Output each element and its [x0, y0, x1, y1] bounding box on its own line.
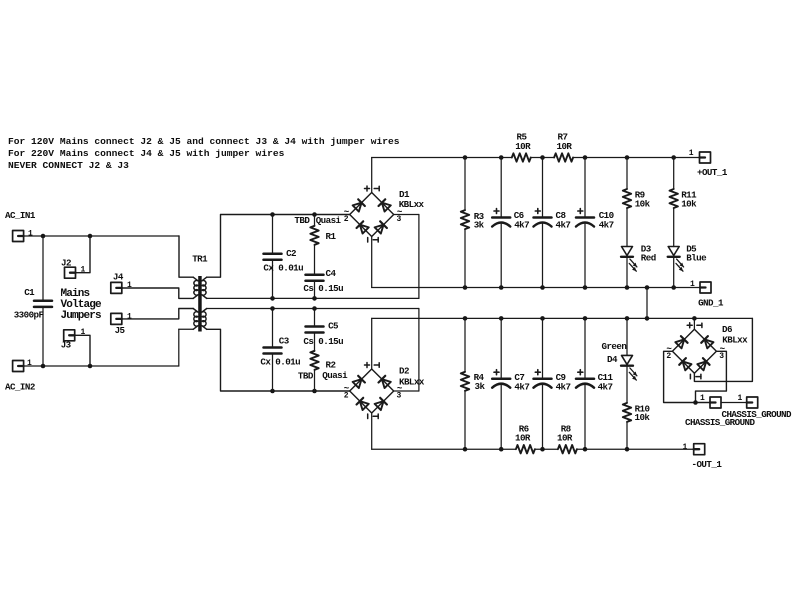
- junction dots AC_IN2 net: [41, 364, 93, 369]
- wire C8 leads: [542, 158, 544, 288]
- svg-text:4k7: 4k7: [598, 382, 613, 393]
- wire C2 leads: [272, 215, 274, 299]
- wire secondary B bottom to D2 AC1 node: [207, 329, 350, 391]
- transformer TR1 core: [198, 276, 202, 332]
- wire J4 to TR1 primary A bottom: [122, 288, 193, 298]
- wire GND2 rail: [372, 317, 753, 319]
- wire R9 D3 branch: [626, 158, 628, 288]
- wire R3 leads: [464, 158, 466, 288]
- wire C5 R2 chain: [314, 309, 316, 392]
- svg-text:C1: C1: [24, 287, 35, 298]
- wire D6 minus loop to GND2 rail: [694, 318, 752, 381]
- junction dots GND2 rail: [463, 316, 697, 321]
- junction dots -OUT rail: [463, 447, 630, 452]
- wire GND to GND2 link: [646, 288, 648, 319]
- svg-text:10R: 10R: [557, 141, 573, 152]
- wire C10 leads: [584, 158, 586, 288]
- svg-text:C5: C5: [328, 320, 339, 331]
- capacitor C9: [534, 370, 552, 388]
- svg-text:GND_1: GND_1: [698, 298, 724, 309]
- svg-text:TR1: TR1: [192, 254, 208, 265]
- wire D2 plus up to GND2 rail: [371, 318, 373, 369]
- svg-text:KBLxx: KBLxx: [722, 334, 748, 345]
- LED D5: [668, 247, 684, 272]
- wire R4 leads: [464, 318, 466, 449]
- junction dots GND rail: [463, 285, 676, 290]
- wire AC_IN1 down to TR1 primary A top: [179, 236, 193, 277]
- junction dot chassis node: [693, 400, 698, 405]
- wire D1 minus down to GND rail: [371, 237, 373, 288]
- svg-text:NEVER CONNECT J2 & J3: NEVER CONNECT J2 & J3: [8, 160, 129, 171]
- wire D4 R10 branch: [626, 318, 628, 449]
- connector GND_1: [700, 282, 711, 293]
- transformer TR1 winding primary A: [193, 277, 198, 298]
- svg-text:4k7: 4k7: [514, 382, 529, 393]
- svg-text:Cx 0.01u: Cx 0.01u: [260, 357, 300, 368]
- wire C7 leads: [500, 318, 502, 449]
- svg-text:J4: J4: [113, 271, 124, 282]
- junction dots node D2 AC2: [270, 306, 317, 311]
- wire R1 C4 chain: [314, 215, 316, 299]
- svg-text:3k: 3k: [475, 381, 486, 392]
- svg-text:J3: J3: [61, 340, 72, 351]
- capacitor C10: [576, 209, 594, 227]
- wire C11 leads: [584, 318, 586, 449]
- svg-text:10k: 10k: [681, 198, 697, 209]
- svg-text:1: 1: [738, 394, 743, 403]
- capacitor C1: [34, 301, 52, 307]
- LED D3: [621, 247, 637, 272]
- svg-text:Red: Red: [641, 253, 656, 264]
- svg-text:1: 1: [689, 149, 694, 158]
- bridge rectifier D1: [344, 186, 403, 242]
- svg-text:For 220V Mains connect J4 & J5: For 220V Mains connect J4 & J5 with jump…: [8, 148, 285, 159]
- resistor R6: [516, 445, 535, 453]
- svg-text:Blue: Blue: [686, 253, 707, 264]
- connector -OUT_1: [694, 444, 705, 455]
- svg-text:3: 3: [719, 352, 724, 361]
- wire D6 AC1 to chassis node: [664, 351, 710, 402]
- svg-text:For 120V Mains connect J2 & J5: For 120V Mains connect J2 & J5 and conne…: [8, 136, 400, 147]
- wire D1 plus up to +rail: [371, 158, 373, 193]
- resistor R8: [558, 445, 577, 453]
- junction dots AC_IN1 net: [41, 234, 93, 239]
- junction dots node D2 AC1: [270, 389, 317, 394]
- svg-text:2: 2: [344, 215, 349, 224]
- svg-text:Cx 0.01u: Cx 0.01u: [263, 263, 303, 274]
- connector +OUT_1: [700, 152, 711, 163]
- wire D6 plus to GND2 rail: [693, 318, 695, 329]
- resistor R5: [512, 153, 531, 161]
- svg-text:J2: J2: [61, 257, 71, 268]
- wire secondary B top to D2 AC2 node: [207, 309, 419, 392]
- capacitor C4: [306, 275, 324, 281]
- capacitor C7: [492, 370, 510, 388]
- svg-text:1: 1: [700, 394, 705, 403]
- capacitor C5: [306, 327, 324, 333]
- junction dots node D1 AC2: [270, 296, 317, 301]
- resistor R1: [310, 226, 318, 245]
- wire +OUT rail: [372, 157, 700, 159]
- wire TR1 primary B bottom lead: [179, 328, 193, 330]
- svg-text:TBD: TBD: [294, 215, 310, 226]
- svg-text:C3: C3: [279, 336, 290, 347]
- svg-text:Jumpers: Jumpers: [61, 310, 102, 322]
- svg-text:KBLxx: KBLxx: [399, 199, 425, 210]
- junction dots +OUT rail: [463, 155, 676, 160]
- resistor R10: [623, 403, 631, 422]
- resistor R9: [623, 189, 631, 208]
- connector J2: [65, 267, 76, 278]
- svg-text:4k7: 4k7: [556, 382, 571, 393]
- wire -OUT rail: [372, 448, 694, 450]
- junction dots node D1 AC1: [270, 212, 317, 217]
- svg-text:CHASSIS_GROUND: CHASSIS_GROUND: [685, 417, 756, 428]
- svg-text:-OUT_1: -OUT_1: [692, 459, 723, 470]
- wire secondary A bottom to D1 AC2 node: [207, 215, 419, 299]
- svg-text:4k7: 4k7: [514, 220, 529, 231]
- resistor R11: [670, 189, 678, 208]
- wire J2 to AC_IN1 net: [76, 236, 91, 273]
- wire between chassis connectors: [721, 402, 747, 404]
- svg-text:KBLxx: KBLxx: [399, 377, 425, 388]
- svg-text:3: 3: [397, 215, 402, 224]
- svg-text:4k7: 4k7: [556, 220, 571, 231]
- svg-text:1: 1: [683, 443, 688, 452]
- svg-text:Quasi: Quasi: [316, 215, 342, 226]
- svg-text:10R: 10R: [515, 141, 531, 152]
- svg-text:3: 3: [397, 392, 402, 401]
- resistor R3: [461, 210, 469, 229]
- svg-text:2: 2: [666, 352, 671, 361]
- svg-text:10k: 10k: [635, 198, 651, 209]
- svg-text:R2: R2: [326, 359, 336, 370]
- svg-text:1: 1: [28, 229, 33, 238]
- label Mains Voltage Jumpers: [61, 288, 103, 322]
- svg-text:D2: D2: [399, 366, 409, 377]
- wire GND rail: [372, 287, 700, 289]
- capacitor C6: [492, 209, 510, 227]
- svg-text:TBD: TBD: [298, 370, 314, 381]
- wire J5 to TR1 primary B top: [122, 309, 193, 319]
- wire D6 AC2 to chassis node: [696, 351, 727, 402]
- transformer TR1 winding secondary A: [202, 277, 207, 298]
- svg-text:1: 1: [27, 359, 32, 368]
- resistor R7: [554, 153, 573, 161]
- svg-text:J5: J5: [115, 325, 126, 336]
- connector J5: [111, 313, 122, 324]
- svg-text:AC_IN1: AC_IN1: [5, 210, 36, 221]
- svg-text:3300pF: 3300pF: [14, 309, 44, 320]
- connector CHASSIS_GROUND 1: [710, 397, 721, 408]
- svg-text:C2: C2: [286, 248, 296, 259]
- wire C3 leads: [272, 309, 274, 392]
- wire R11 D5 branch: [673, 158, 675, 288]
- svg-text:Cs 0.15u: Cs 0.15u: [303, 336, 343, 347]
- transformer TR1 winding secondary B: [202, 309, 207, 330]
- capacitor C8: [534, 209, 552, 227]
- svg-text:4k7: 4k7: [599, 220, 614, 231]
- connector J4: [111, 282, 122, 293]
- svg-text:C4: C4: [326, 268, 337, 279]
- wire D2 minus down to -rail: [371, 413, 373, 449]
- wire net AC_IN1 top: [24, 235, 179, 237]
- transformer TR1 winding primary B: [193, 309, 198, 330]
- resistor R2: [310, 351, 318, 370]
- bridge rectifier D6: [666, 323, 725, 379]
- svg-text:1: 1: [690, 280, 695, 289]
- svg-text:Cs 0.15u: Cs 0.15u: [303, 283, 343, 294]
- wire C9 leads: [542, 318, 544, 449]
- bridge rectifier D2: [344, 363, 403, 419]
- connector AC_IN1: [13, 231, 24, 242]
- svg-text:3k: 3k: [474, 220, 485, 231]
- resistor R4: [461, 372, 469, 391]
- wire secondary A top to D1 AC1 node: [207, 215, 350, 278]
- wire C6 leads: [500, 158, 502, 288]
- svg-text:Green: Green: [602, 341, 627, 352]
- svg-text:Quasi: Quasi: [322, 370, 348, 381]
- LED D4: [621, 355, 637, 380]
- svg-text:10R: 10R: [557, 433, 573, 444]
- svg-text:R1: R1: [326, 231, 337, 242]
- capacitor C3: [264, 348, 282, 354]
- connector CHASSIS_GROUND 2: [747, 397, 758, 408]
- svg-text:10k: 10k: [635, 412, 651, 423]
- svg-text:1: 1: [127, 312, 132, 321]
- wire J3 to AC_IN2 net: [75, 335, 90, 366]
- svg-text:2: 2: [344, 392, 349, 401]
- connector AC_IN2: [13, 361, 24, 372]
- svg-text:AC_IN2: AC_IN2: [5, 381, 35, 392]
- svg-text:10R: 10R: [515, 433, 531, 444]
- svg-text:+OUT_1: +OUT_1: [697, 167, 728, 178]
- wire net AC_IN2 bottom: [24, 329, 179, 366]
- capacitor C11: [576, 370, 594, 388]
- svg-text:D4: D4: [607, 354, 618, 365]
- wire C1 leads: [42, 236, 44, 366]
- capacitor C2: [264, 254, 282, 260]
- connector J3: [64, 330, 75, 341]
